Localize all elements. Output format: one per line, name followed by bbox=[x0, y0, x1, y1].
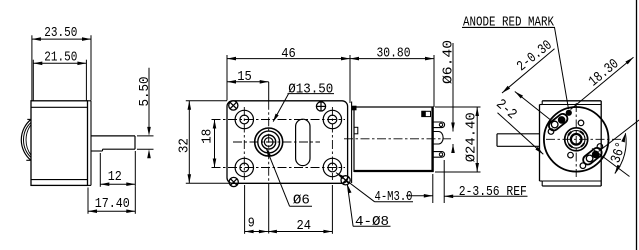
dimension 21.50 bbox=[33, 50, 86, 101]
left side view: motor can bulge arcs bbox=[21, 119, 31, 160]
top view: mounting hole centerlines bbox=[212, 107, 346, 180]
dimension 2-3.56 REF bbox=[406, 160, 528, 203]
dimension 5.50 (shaft) bbox=[137, 68, 154, 158]
dimension Ø24.40 (motor diameter) bbox=[435, 107, 481, 172]
top view: spacer plate edge bbox=[351, 102, 353, 184]
svg-text:4-Ø8: 4-Ø8 bbox=[355, 214, 389, 230]
top view: mounting hole bottom-left bbox=[235, 158, 253, 176]
top view: corner screw bottom-right bbox=[341, 176, 350, 185]
svg-text:15: 15 bbox=[237, 69, 252, 85]
svg-text:18: 18 bbox=[200, 129, 216, 144]
svg-text:32: 32 bbox=[177, 138, 193, 153]
top view: terminal lug upper bbox=[434, 122, 445, 128]
svg-text:12: 12 bbox=[108, 169, 122, 185]
end view: shaft hub rings bbox=[565, 128, 588, 151]
svg-text:Ø13.50: Ø13.50 bbox=[288, 82, 333, 98]
top view: corner screw bottom-left bbox=[229, 177, 238, 186]
dimension 12 (shaft length) bbox=[100, 151, 135, 187]
end view: square housing outline bbox=[540, 101, 602, 186]
top view: motor axis centerline bbox=[344, 138, 451, 140]
left side view: output shaft bbox=[91, 136, 135, 151]
dimension Ø6.40 (motor shaft) bbox=[440, 40, 456, 153]
label ANODE RED MARK with leader bbox=[462, 15, 569, 110]
dimension 46 bbox=[227, 46, 350, 103]
top view: output hub concentric circles bbox=[255, 128, 283, 156]
top view: motor tab top-left bbox=[352, 106, 356, 110]
dimension 9 bbox=[245, 185, 268, 234]
dimension 32 bbox=[177, 101, 230, 184]
svg-text:9: 9 bbox=[248, 216, 255, 232]
dimension 24 bbox=[268, 185, 333, 234]
angle leg 36 degrees bbox=[592, 149, 630, 177]
end view: motor circle bbox=[544, 107, 609, 172]
slot axis extension line with arrow bbox=[515, 92, 550, 120]
dimension 36 degrees with arc bbox=[608, 133, 630, 173]
end view: terminal slot lower-right bbox=[581, 146, 603, 166]
top view: corner screw top-right bbox=[316, 102, 325, 111]
end view: hub bearing tick arcs bbox=[568, 131, 584, 147]
end view: centerlines bbox=[546, 103, 621, 177]
slot axis extension lower-right bbox=[599, 120, 639, 152]
dimension 2-0.30 bbox=[502, 38, 556, 93]
drawing frame right border bbox=[636, 0, 638, 250]
top view: oval slot bbox=[296, 119, 310, 165]
svg-text:Ø6.40: Ø6.40 bbox=[440, 40, 456, 84]
end view: small circle upper bbox=[578, 120, 584, 126]
top view: terminal lug lower bbox=[434, 152, 445, 158]
leader dimension Ø6 bbox=[266, 148, 312, 208]
dimension 30.80 bbox=[350, 46, 434, 108]
top view: motor tab left edge bbox=[354, 127, 358, 134]
svg-text:5.50: 5.50 bbox=[137, 77, 153, 107]
top view: gearbox plate bbox=[227, 101, 348, 184]
end view: small circle lower bbox=[580, 163, 586, 169]
end view: small circle right bbox=[597, 144, 603, 150]
dimension 23.50 bbox=[32, 25, 91, 101]
top view: motor tab top-right bbox=[422, 111, 431, 116]
svg-text:17.40: 17.40 bbox=[95, 196, 130, 212]
end view: small circle lower-left bbox=[568, 152, 574, 158]
end view: terminal slot upper-left bbox=[547, 112, 569, 132]
top view: output hub centerlines bbox=[233, 82, 320, 234]
top view: motor rear shaft boss bbox=[434, 132, 444, 145]
left side view: right face plate strip bbox=[88, 101, 92, 186]
dimension 18.30 bbox=[571, 56, 634, 109]
top view: corner screw top-left bbox=[229, 101, 238, 110]
svg-text:4-M3.0: 4-M3.0 bbox=[375, 189, 413, 205]
end view: small circle left bbox=[548, 129, 554, 135]
top view: mounting hole top-right bbox=[323, 110, 341, 128]
end view: output shaft (left) bbox=[497, 134, 540, 147]
svg-text:23.50: 23.50 bbox=[44, 25, 77, 41]
leader dimension Ø13.50 bbox=[273, 82, 334, 123]
dimension 2-2 bbox=[492, 96, 543, 154]
top view: mounting hole top-left bbox=[235, 110, 253, 128]
leader dimension 4-M3.0 bbox=[336, 173, 413, 206]
dimension 17.40 bbox=[88, 187, 135, 214]
top view: motor body bbox=[354, 107, 434, 172]
top view: mounting hole bottom-right bbox=[323, 158, 341, 176]
left side view: gearbox body outline bbox=[31, 101, 88, 186]
leader dimension 4-Ø8 bbox=[347, 184, 390, 230]
svg-text:ANODE RED MARK: ANODE RED MARK bbox=[463, 15, 554, 31]
svg-text:46: 46 bbox=[281, 46, 296, 62]
dimension 18 bbox=[200, 120, 217, 168]
dimension 15 bbox=[227, 69, 269, 85]
svg-text:2-3.56 REF: 2-3.56 REF bbox=[459, 184, 527, 200]
end view: anode red mark dot bbox=[566, 110, 572, 116]
